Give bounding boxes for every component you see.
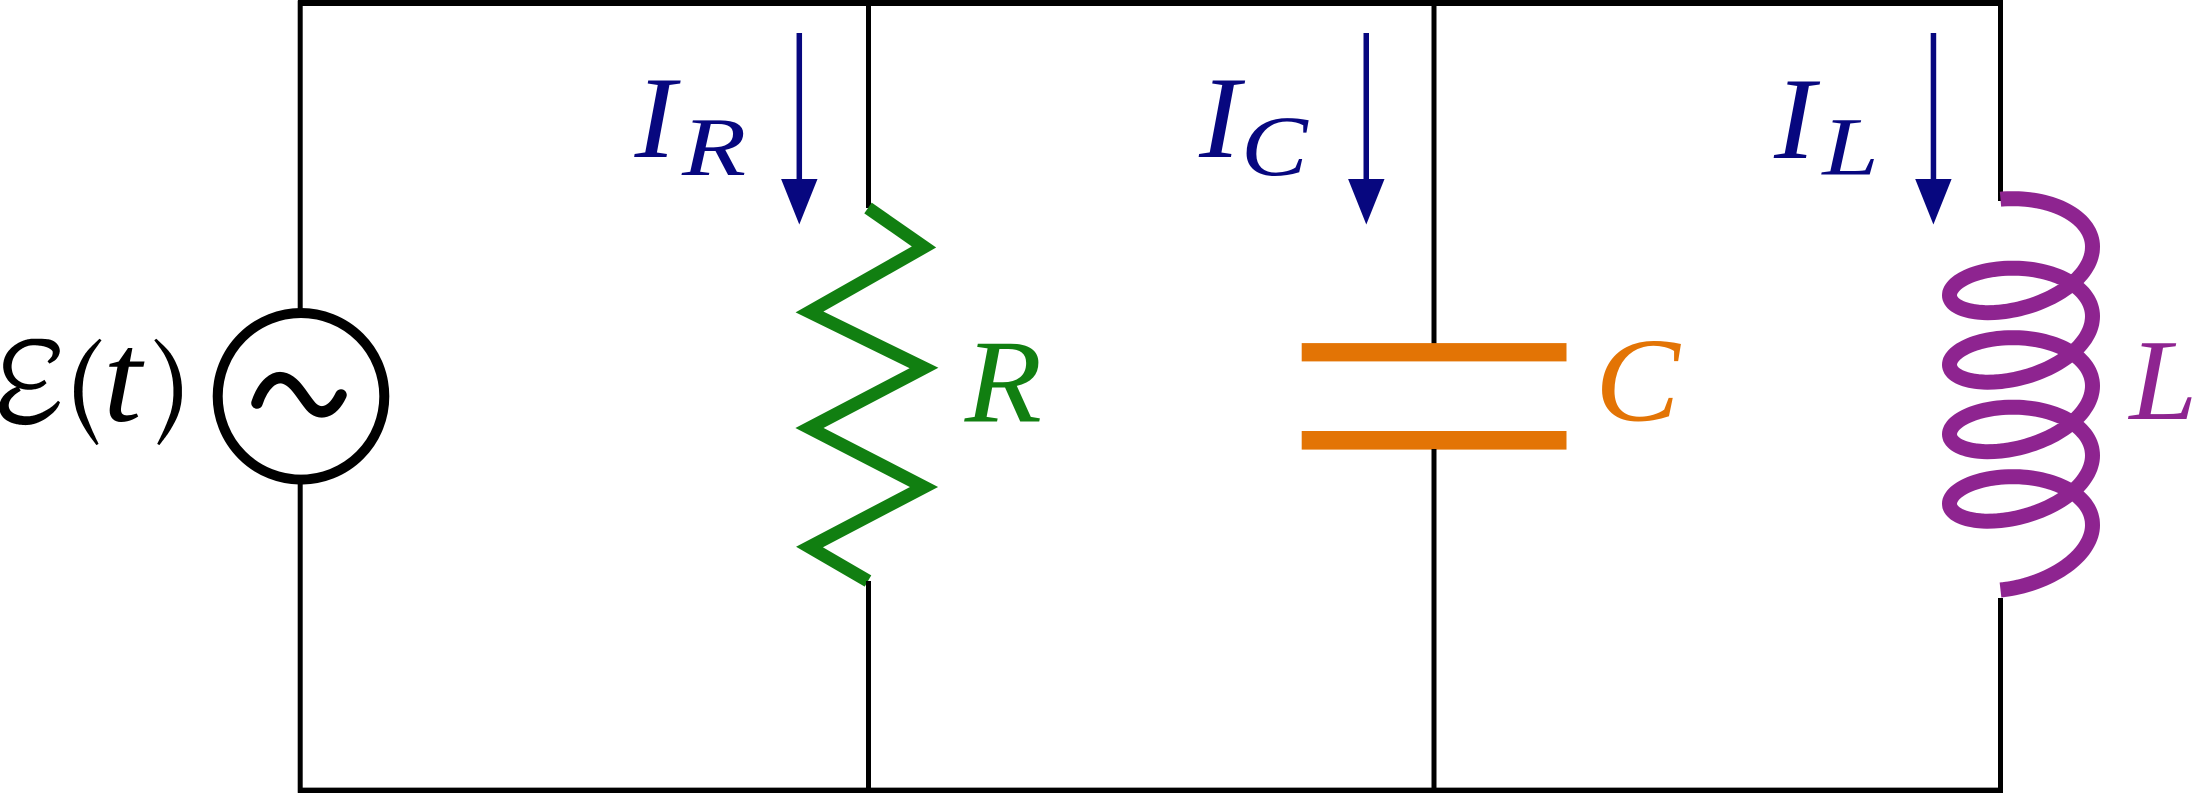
AC source E(t) circle (218, 313, 385, 480)
label E(t): close paren (154, 339, 182, 445)
capacitor C bottom plate (1302, 431, 1567, 450)
wire left upper (298, 1, 303, 314)
label I_R: subscript R (681, 100, 746, 193)
svg-text:t: t (103, 306, 146, 449)
wire capacitor branch upper (1432, 1, 1437, 345)
current arrow I_L (1915, 33, 1951, 225)
wire resistor branch upper (866, 1, 871, 209)
wire inductor branch upper (1998, 1, 2003, 202)
label L (2127, 316, 2193, 444)
svg-text:I: I (634, 54, 681, 183)
label I_C: subscript C (1241, 99, 1309, 194)
current arrow I_C (1348, 33, 1384, 225)
resistor R zigzag (810, 208, 925, 581)
svg-text:C: C (1595, 314, 1681, 447)
wire capacitor branch lower (1432, 449, 1437, 793)
AC source sine wave symbol (257, 378, 341, 412)
svg-text:I: I (1198, 54, 1245, 183)
svg-text:C: C (1241, 99, 1309, 194)
label R (964, 316, 1042, 448)
label I_R: I (634, 54, 681, 183)
capacitor C top plate (1302, 343, 1567, 361)
label C (1595, 314, 1681, 447)
inductor L coil (1950, 199, 2093, 590)
svg-text:R: R (964, 316, 1042, 448)
label I_L: I (1773, 55, 1820, 184)
svg-text:L: L (1820, 101, 1879, 193)
label E(t): t (103, 306, 146, 449)
svg-text:I: I (1773, 55, 1820, 184)
wire inductor branch lower (1998, 598, 2003, 793)
label I_C: I (1198, 54, 1245, 183)
wire resistor branch lower (866, 581, 871, 793)
label I_L: subscript L (1820, 101, 1879, 193)
wire top (298, 0, 2003, 6)
current arrow I_R (781, 33, 817, 225)
wire left lower (298, 480, 303, 793)
label E(t): script E (0, 339, 60, 425)
svg-text:L: L (2127, 316, 2193, 444)
label E(t): open paren (74, 339, 102, 445)
wire bottom (298, 788, 2003, 793)
svg-text:R: R (681, 100, 746, 193)
